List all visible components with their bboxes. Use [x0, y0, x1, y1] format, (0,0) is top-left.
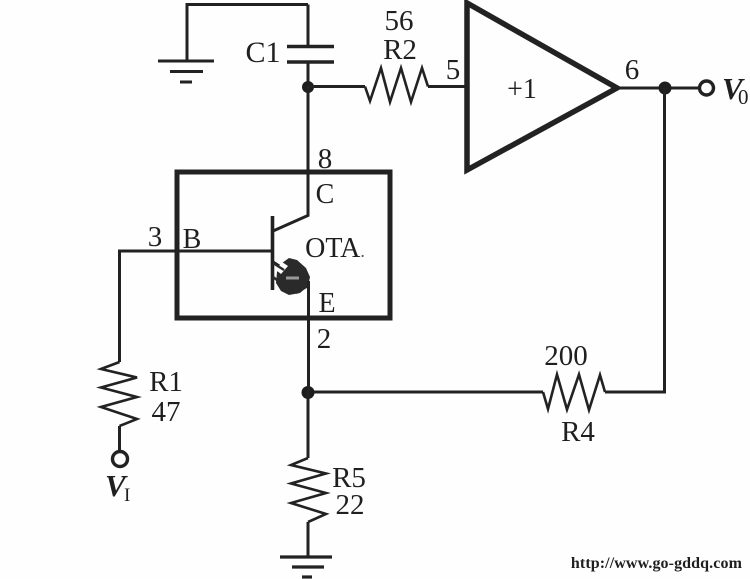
svg-text:C1: C1 [245, 36, 280, 69]
node C (junction dot above R5) [302, 386, 315, 399]
wire R5 to ground [307, 522, 310, 557]
transistor Q1 collector lead [273, 215, 309, 231]
label VI [105, 468, 130, 506]
wire pin 8 vertical (node A into box / collector) [307, 87, 310, 216]
wire down to C1 top plate [307, 5, 310, 48]
svg-text:47: 47 [152, 396, 181, 428]
node B (output junction dot) [659, 82, 672, 95]
svg-text:R1: R1 [149, 366, 183, 398]
wire node C down to R5 [307, 392, 310, 458]
svg-text:http://www.go-gddq.com: http://www.go-gddq.com [571, 555, 743, 572]
svg-text:56: 56 [385, 5, 414, 37]
resistor R4 [543, 375, 605, 411]
wire R2 to op-amp pin 5 [428, 85, 467, 88]
transistor Q1 base bar [271, 216, 275, 290]
wire emitter to pin 2 [307, 281, 310, 392]
OTA box U2 [177, 172, 390, 318]
svg-text:6: 6 [625, 54, 640, 86]
wire op-amp output to terminal [617, 87, 698, 90]
svg-text:R4: R4 [561, 416, 595, 448]
svg-text:22: 22 [336, 489, 365, 521]
wire feedback vertical (output down to R4) [663, 88, 666, 394]
wire left vertical to R1 [118, 251, 121, 362]
ground (bottom) [280, 557, 332, 577]
node A (junction dot under C1) [302, 81, 314, 93]
terminal VO circle [700, 81, 714, 95]
svg-text:0: 0 [738, 85, 749, 109]
svg-text:8: 8 [318, 143, 333, 175]
ground (top-left) [158, 4, 214, 82]
op-amp U1 (+1 buffer) [467, 3, 617, 170]
svg-text:R2: R2 [383, 34, 417, 66]
wire base pin 3 horizontal [118, 250, 272, 253]
svg-text:E: E [318, 288, 335, 319]
svg-text:200: 200 [544, 340, 588, 372]
transistor Q1 emitter arrow blob [273, 258, 310, 295]
svg-text:OTA.: OTA. [305, 233, 365, 264]
svg-text:3: 3 [148, 221, 163, 253]
resistor R1 [101, 362, 137, 426]
svg-text:B: B [183, 224, 202, 255]
svg-text:I: I [124, 485, 130, 506]
svg-text:+1: +1 [507, 74, 537, 105]
svg-text:C: C [316, 179, 335, 210]
wire top horizontal from ground to C1 [186, 3, 309, 6]
wire R4 right segment [605, 391, 666, 394]
svg-text:5: 5 [446, 54, 461, 86]
wire node A to R2 [308, 85, 365, 88]
resistor R5 [291, 458, 326, 522]
wire C1 bottom to node A [307, 62, 310, 87]
label VO [722, 71, 749, 109]
resistor R2 [365, 68, 428, 102]
wire R4 left to node C [308, 391, 543, 394]
wire R1 to VI terminal [118, 426, 121, 450]
terminal VI circle [113, 452, 128, 467]
transistor Q1 emitter lead [273, 262, 309, 285]
svg-text:2: 2 [317, 323, 332, 355]
capacitor C1 [287, 47, 334, 63]
